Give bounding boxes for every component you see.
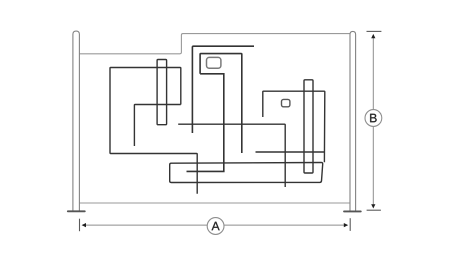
right post foot <box>343 211 362 213</box>
letter A <box>212 222 220 230</box>
rectangle R2 top-left edges <box>134 105 180 147</box>
letter B <box>370 114 376 122</box>
left post foot <box>67 210 86 212</box>
long horizontal H2 with corner down <box>178 124 285 187</box>
rectangle R4 <box>263 91 325 162</box>
small rounded square S1 <box>207 57 221 68</box>
dimension A line <box>84 224 346 226</box>
rectangle R3 with step <box>200 54 242 153</box>
narrow vertical rectangle B <box>304 80 313 173</box>
R3 bottom step <box>187 74 224 172</box>
dimension B bottom arrow <box>371 204 375 208</box>
segment S3 <box>256 151 325 153</box>
dimension A left tick <box>79 219 81 232</box>
circle label A <box>207 218 224 235</box>
circle label B <box>365 110 382 127</box>
left post <box>73 31 80 211</box>
right post <box>350 31 356 210</box>
dimension B top arrow <box>371 34 375 38</box>
dimension A right tick <box>349 218 351 231</box>
rectangle R1 <box>110 68 197 194</box>
dimension A left arrow <box>82 223 86 227</box>
wall top edge left segment <box>79 34 350 54</box>
dimension A right arrow <box>344 223 348 227</box>
dimension B top tick <box>367 30 382 32</box>
corner line V1/H1 <box>192 46 254 133</box>
tilted rectangle R6 <box>170 163 323 183</box>
wall bottom edge <box>79 202 350 204</box>
narrow vertical rectangle A <box>157 60 167 125</box>
dimension B bottom tick <box>367 209 381 211</box>
dimension B line <box>372 36 374 206</box>
small rounded square S2 <box>282 99 290 106</box>
